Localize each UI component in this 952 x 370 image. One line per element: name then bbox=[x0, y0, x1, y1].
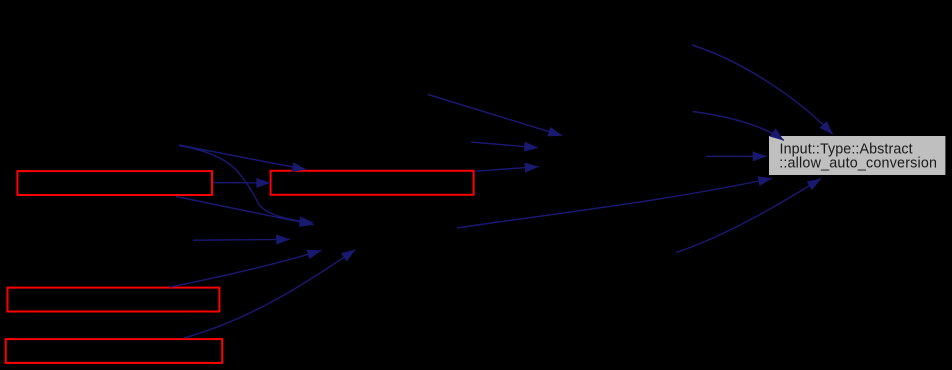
edge E6: box3 top to mid hidden node bbox=[170, 251, 321, 288]
node box1 (red, top-left caller) bbox=[17, 171, 212, 195]
edge E3: box1 to box2 bbox=[213, 182, 270, 184]
edge E2: hidden node S-curve to mid hidden node bbox=[179, 146, 313, 223]
edge E15: hidden node to grey node left bbox=[706, 155, 767, 157]
node box3 (red, lower-left caller) bbox=[8, 288, 220, 312]
svg-text:::allow_auto_conversion: ::allow_auto_conversion bbox=[779, 156, 937, 172]
edge E4: box1 bottom to mid hidden node bbox=[176, 197, 314, 225]
edge E14: hidden node to grey node top-left bbox=[693, 112, 784, 141]
edge E9: hidden node to right hidden node bbox=[471, 142, 538, 148]
edge E13: hidden node arc to grey node top bbox=[692, 45, 833, 134]
node box2 (red, center caller) bbox=[271, 171, 474, 195]
edge E7: box4 top to mid hidden node bbox=[184, 250, 355, 338]
edge E5: hidden node to mid hidden node bbox=[193, 238, 290, 241]
edge E10: box2 right to right hidden node bbox=[475, 167, 539, 172]
edge E8: hidden node to right hidden node bbox=[428, 95, 562, 136]
node box4 (red, bottom-left caller) bbox=[6, 339, 223, 363]
node Input::Type::Abstract::allow_auto_conversion (grey) bbox=[769, 136, 945, 175]
edge E1: hidden node to box2 top bbox=[179, 145, 306, 170]
edge E12: hidden node to grey node bottom bbox=[676, 179, 821, 253]
edge E11: mid hidden node to grey node bbox=[457, 178, 772, 228]
